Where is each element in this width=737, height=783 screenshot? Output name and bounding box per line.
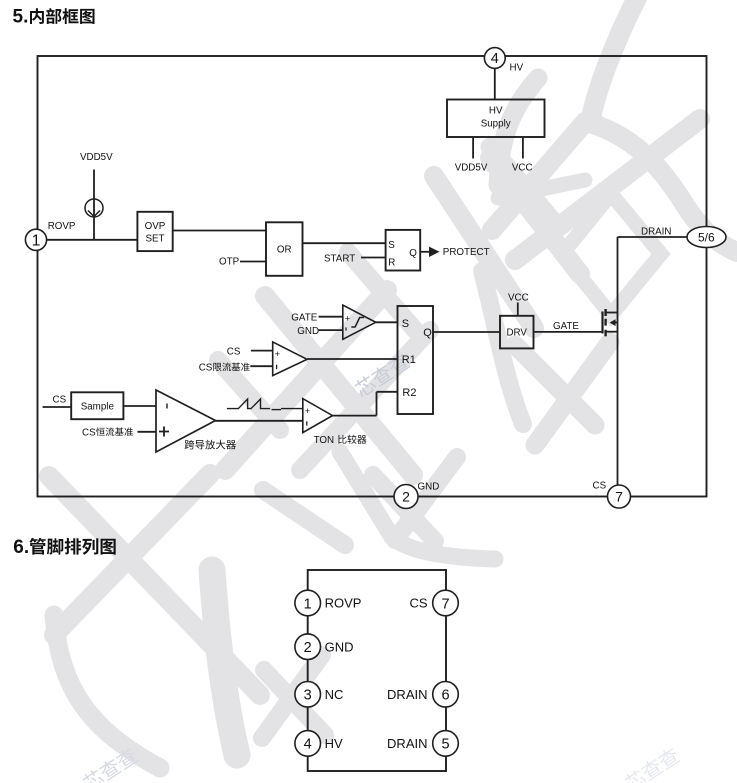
svg-text:7: 7	[615, 489, 623, 505]
svg-text:3: 3	[304, 688, 312, 704]
svg-text:ROVP: ROVP	[325, 596, 362, 611]
wire OVP SET to OR	[173, 230, 266, 232]
svg-text:VCC: VCC	[512, 163, 533, 174]
section title 5.内部框图	[13, 7, 95, 28]
wire amp to TON comparator	[216, 420, 303, 422]
svg-text:Q: Q	[409, 248, 417, 259]
svg-text:6: 6	[441, 688, 449, 704]
svg-text:CS: CS	[409, 596, 427, 611]
current source I1	[85, 199, 103, 217]
pin 4 HV	[295, 731, 343, 757]
OR gate block	[266, 222, 303, 275]
pin 3 NC	[295, 682, 343, 708]
svg-text:1: 1	[32, 232, 41, 249]
svg-text:TON: TON	[314, 435, 335, 446]
wire Sample to amp	[123, 405, 156, 407]
svg-text:PROTECT: PROTECT	[443, 247, 490, 258]
svg-text:DRAIN: DRAIN	[641, 226, 671, 237]
pin 6 DRAIN	[387, 682, 458, 708]
IC package body	[308, 570, 446, 771]
schmitt trigger comparator	[343, 305, 376, 339]
pin 1 ROVP	[295, 590, 362, 616]
svg-text:2: 2	[304, 640, 312, 656]
svg-text:S: S	[388, 240, 395, 251]
svg-text:VDD5V: VDD5V	[455, 163, 488, 174]
svg-text:4: 4	[304, 737, 312, 753]
svg-text:OVP: OVP	[145, 221, 166, 232]
svg-text:OTP: OTP	[219, 257, 240, 268]
svg-text:DRAIN: DRAIN	[387, 687, 427, 702]
svg-text:VCC: VCC	[508, 293, 529, 304]
wire OR to S	[303, 242, 386, 244]
svg-text:OR: OR	[277, 245, 292, 256]
wire TON to R2	[333, 392, 398, 416]
net label CS限流基准	[199, 362, 250, 373]
pin circle 7	[608, 485, 631, 508]
svg-text:Supply: Supply	[481, 119, 511, 130]
svg-text:START: START	[324, 253, 355, 264]
svg-text:S: S	[402, 318, 409, 330]
wire VDD5V down	[93, 170, 95, 240]
svg-text:R2: R2	[402, 387, 416, 399]
TON comparator	[303, 399, 333, 433]
wire drain-source vertical	[617, 237, 619, 485]
pin ellipse 5/6	[687, 227, 726, 248]
svg-text:+: +	[275, 349, 280, 359]
svg-text:NC: NC	[325, 687, 344, 702]
sawtooth ramp symbol	[227, 399, 303, 410]
svg-text:+: +	[345, 314, 350, 324]
svg-text:CS: CS	[82, 427, 96, 438]
wire CS to Sample	[43, 406, 72, 408]
SR latch U1	[386, 230, 421, 271]
wire pin4 to HV supply	[494, 68, 496, 100]
svg-text:HV: HV	[325, 736, 343, 751]
wire schmitt to S2	[376, 321, 398, 323]
svg-text:7: 7	[441, 596, 449, 612]
label TON 比较器	[314, 435, 367, 446]
DRV block	[500, 316, 534, 349]
section title 6.管脚排列图	[13, 537, 115, 558]
svg-text:CS: CS	[227, 346, 241, 357]
watermark: small 芯查查 texts	[352, 352, 411, 399]
wire CS in	[251, 350, 273, 352]
wire GND in	[319, 329, 343, 331]
wire comparator to R1	[307, 358, 398, 360]
wire ROVP	[47, 239, 138, 241]
svg-text:Q: Q	[423, 327, 432, 339]
svg-text:4: 4	[491, 51, 499, 67]
wire VCC stub	[522, 137, 524, 159]
svg-text:R1: R1	[402, 354, 416, 366]
svg-text:5.: 5.	[13, 7, 29, 28]
block diagram border	[38, 56, 707, 497]
svg-text:5/6: 5/6	[698, 231, 715, 245]
wire VDD5V stub	[472, 137, 474, 159]
svg-text:VDD5V: VDD5V	[80, 152, 113, 163]
svg-text:DRAIN: DRAIN	[387, 736, 427, 751]
svg-text:HV: HV	[510, 63, 524, 74]
svg-text:Sample: Sample	[81, 402, 115, 413]
svg-text:GATE: GATE	[553, 321, 579, 332]
svg-text:GND: GND	[325, 639, 354, 654]
svg-text:CS: CS	[593, 481, 607, 492]
wire DRV to gate	[534, 331, 603, 333]
svg-text:DRV: DRV	[506, 328, 527, 339]
svg-text:ROVP: ROVP	[48, 221, 76, 232]
svg-text:GND: GND	[297, 326, 319, 337]
svg-text:CS: CS	[199, 362, 213, 373]
svg-text:2: 2	[402, 489, 410, 505]
wire CS限流基准 in	[250, 365, 272, 367]
pin 2 GND	[295, 634, 354, 660]
MOSFET Q1	[603, 309, 618, 336]
pin 7 CS	[409, 590, 458, 616]
svg-text:5: 5	[441, 737, 449, 753]
svg-text:HV: HV	[489, 106, 503, 117]
SR latch U2	[398, 306, 434, 414]
wire Q2 to DRV	[433, 331, 500, 333]
transconductance amplifier	[156, 390, 216, 452]
wire VCC to DRV	[517, 303, 519, 316]
label 跨导放大器	[185, 440, 236, 450]
svg-text:1: 1	[304, 596, 312, 612]
OVP SET block	[137, 212, 172, 251]
wire OTP to OR	[240, 261, 266, 263]
svg-text:GND: GND	[418, 482, 440, 493]
wire START to R	[361, 257, 386, 259]
pin circle 1	[25, 229, 46, 250]
Sample block	[71, 392, 123, 419]
net label CS恒流基准	[82, 427, 133, 438]
svg-text:SET: SET	[145, 233, 164, 244]
wire GATE in	[319, 316, 343, 318]
svg-text:6.: 6.	[13, 537, 29, 558]
wire CS恒流基准 to amp	[138, 431, 157, 433]
comparator CS limit	[273, 342, 307, 376]
svg-text:CS: CS	[53, 394, 67, 405]
wire drain to pin	[618, 236, 688, 238]
HV Supply block	[447, 100, 545, 138]
svg-text:R: R	[388, 258, 395, 269]
wire Q to PROTECT arrow	[420, 247, 439, 257]
pin 5 DRAIN	[387, 731, 458, 757]
svg-text:+: +	[305, 406, 310, 416]
pin circle 2	[394, 485, 418, 509]
svg-text:GATE: GATE	[291, 312, 317, 323]
pin circle 4	[484, 48, 505, 69]
